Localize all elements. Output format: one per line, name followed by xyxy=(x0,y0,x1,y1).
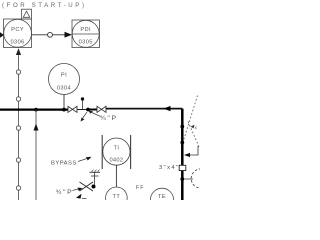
tiny mark xyxy=(191,125,195,129)
drain valve X xyxy=(80,182,94,191)
main pipe left xyxy=(0,108,68,110)
indicator PDI 0305 xyxy=(72,20,100,48)
reducer 3x4 xyxy=(179,165,186,170)
svg-text:¾"P: ¾"P xyxy=(56,189,74,196)
wire PCY to PDI with data-link circle xyxy=(32,32,66,37)
leader lower xyxy=(73,189,79,191)
pipe to right corner xyxy=(106,108,182,110)
junction dot xyxy=(62,108,66,112)
pipe segment xyxy=(77,109,88,111)
svg-text:0304: 0304 xyxy=(57,86,71,92)
arrow into PCY left xyxy=(0,32,4,38)
svg-text:(FOR START-UP): (FOR START-UP) xyxy=(2,2,87,9)
arrow up into PCY bottom xyxy=(16,48,21,55)
svg-text:¾"P: ¾"P xyxy=(100,115,118,122)
instrument circle right edge xyxy=(191,169,210,188)
indicator TI 0402 xyxy=(102,135,130,169)
junction dot xyxy=(34,108,38,112)
svg-text:0305: 0305 xyxy=(79,40,93,46)
arrow into PDI left xyxy=(65,32,73,38)
element TE xyxy=(150,188,173,211)
svg-text:0306: 0306 xyxy=(10,40,24,46)
wire to right instrument xyxy=(184,178,193,180)
gauge PI 0304 xyxy=(49,64,80,95)
svg-text:BYPASS: BYPASS xyxy=(51,161,77,167)
junction dot xyxy=(180,125,184,129)
svg-text:0402: 0402 xyxy=(109,158,123,164)
controller PCY 0306 xyxy=(4,19,32,48)
drain arrow xyxy=(76,194,82,199)
wire PI to pipe xyxy=(63,95,65,110)
wire TI to TT xyxy=(115,165,117,187)
leader arrow down-left xyxy=(82,112,87,119)
svg-text:FF: FF xyxy=(136,185,145,191)
vent stub with plug xyxy=(82,100,84,110)
dashed leader D1 xyxy=(184,96,198,140)
leader to pipe from label xyxy=(90,112,101,117)
dashed leader D2 xyxy=(188,122,200,149)
valve V1 xyxy=(68,106,77,112)
solenoid box on PCY xyxy=(22,9,32,19)
svg-text:PI: PI xyxy=(61,73,67,79)
junction dot xyxy=(86,108,90,112)
transmitter TT xyxy=(106,187,128,209)
svg-text:PDI: PDI xyxy=(80,27,91,33)
junction dot xyxy=(92,185,96,189)
flow arrow left xyxy=(164,106,171,111)
junction dot xyxy=(180,141,184,145)
junction dot xyxy=(180,177,184,181)
branch with arrow into riser xyxy=(185,146,198,155)
svg-text:TI: TI xyxy=(113,146,119,152)
wire down x=36 with up arrow xyxy=(35,110,37,200)
svg-text:TE: TE xyxy=(158,194,166,200)
valve V2 xyxy=(97,106,106,112)
leader BYPASS xyxy=(78,159,87,162)
svg-text:TT: TT xyxy=(113,194,121,200)
svg-text:PCY: PCY xyxy=(11,27,24,33)
vent pipe T xyxy=(94,173,96,186)
svg-text:3"x4": 3"x4" xyxy=(159,165,179,171)
riser pipe right xyxy=(181,109,184,200)
signal wire with link circles x=18.5 xyxy=(16,55,20,200)
